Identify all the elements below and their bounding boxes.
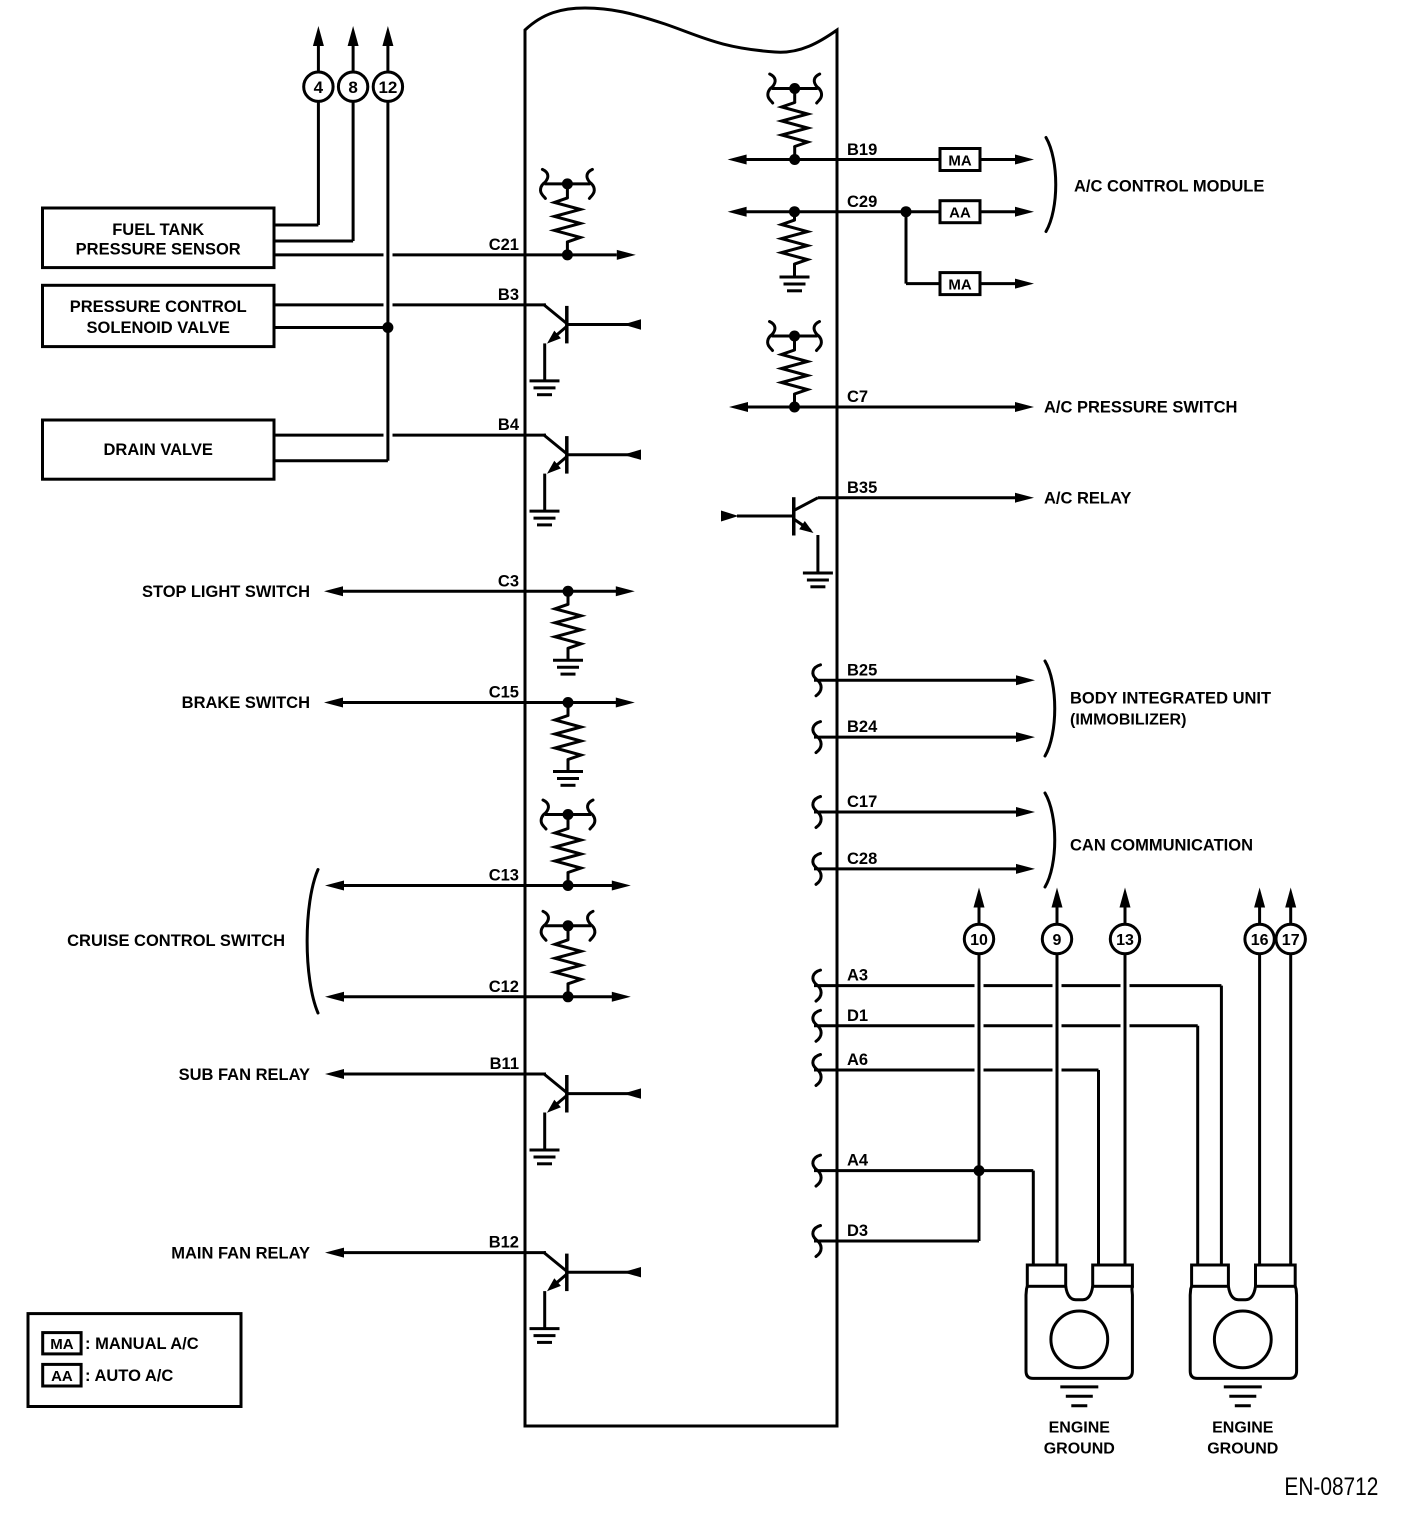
engine ground body 1 xyxy=(1026,1286,1132,1378)
legend box xyxy=(28,1314,241,1407)
wire fuel tank to connector 8 xyxy=(274,101,353,241)
svg-text:MAIN FAN RELAY: MAIN FAN RELAY xyxy=(171,1244,310,1262)
svg-text:C13: C13 xyxy=(489,867,519,885)
wire node 16 vertical xyxy=(1258,954,1261,1266)
transistor Q4 (B12 main fan relay driver) xyxy=(544,1253,641,1328)
svg-text:D3: D3 xyxy=(847,1222,868,1240)
break symbol C28 xyxy=(813,853,821,884)
svg-text:GROUND: GROUND xyxy=(1207,1441,1278,1458)
junction C29 branch xyxy=(901,206,912,217)
svg-text:SUB FAN RELAY: SUB FAN RELAY xyxy=(179,1066,310,1084)
ground (Q1 (B3 pressure control driver) emitter) xyxy=(530,381,560,395)
wire B19 to A/C control module xyxy=(980,155,1034,165)
wire pin C13 xyxy=(325,881,631,891)
svg-text:C3: C3 xyxy=(498,572,519,590)
junction C29 xyxy=(789,206,800,217)
junction C12 xyxy=(563,991,574,1002)
AA legend symbol xyxy=(43,1364,81,1386)
junction C7 xyxy=(789,402,800,413)
svg-text:A4: A4 xyxy=(847,1152,869,1170)
junction C13 xyxy=(563,880,574,891)
break symbol D3 xyxy=(813,1226,821,1257)
drain valve box xyxy=(43,420,275,479)
engine ground body 2 xyxy=(1190,1286,1296,1378)
svg-text:CAN COMMUNICATION: CAN COMMUNICATION xyxy=(1070,836,1253,854)
wire pin C21 xyxy=(274,250,636,260)
break symbol B25 xyxy=(813,665,821,696)
junction B19 xyxy=(789,154,800,165)
wire pin A4 xyxy=(814,1171,1033,1265)
ECM box xyxy=(525,8,837,1426)
wire node 10 vertical xyxy=(978,954,981,1242)
connector circle 4 xyxy=(304,26,333,101)
bracket cruise control switch xyxy=(307,870,318,1014)
transistor Q2 (B4 drain valve driver) xyxy=(544,435,641,510)
connector circle 17 xyxy=(1276,888,1305,954)
terminal 2 of engine ground 1 xyxy=(1093,1265,1133,1286)
AA box (C29 auto A/C) xyxy=(940,201,980,223)
svg-text:: MANUAL A/C: : MANUAL A/C xyxy=(85,1335,199,1353)
svg-text:EN-08712: EN-08712 xyxy=(1284,1473,1378,1501)
resistor C15 to ground xyxy=(555,703,581,771)
svg-text:: AUTO A/C: : AUTO A/C xyxy=(85,1367,173,1385)
break symbol A6 xyxy=(813,1055,821,1086)
wire fuel tank to connector 4 xyxy=(274,101,318,225)
label body integrated unit xyxy=(1070,690,1271,729)
ground (Q2 (B4 drain valve driver) emitter) xyxy=(530,511,560,525)
transistor Q5 (B35 A/C relay driver) xyxy=(721,497,818,571)
transistor Q3 (B11 sub fan relay driver) xyxy=(544,1074,641,1149)
svg-text:C29: C29 xyxy=(847,193,877,211)
bracket A/C control module xyxy=(1046,138,1056,232)
wire pin C7 xyxy=(729,402,1034,412)
ground (Q4 (B12 main fan relay driver) emitter) xyxy=(530,1329,560,1343)
wire pin B25 xyxy=(814,675,1035,685)
wire pin B4 xyxy=(274,434,545,437)
wire pin D1 xyxy=(814,1026,1198,1265)
wire C29 manual branch arrow xyxy=(980,279,1034,289)
svg-text:4: 4 xyxy=(314,78,324,97)
wire C29 branch to manual A/C xyxy=(906,212,940,284)
svg-text:SOLENOID VALVE: SOLENOID VALVE xyxy=(87,319,230,337)
svg-text:GROUND: GROUND xyxy=(1044,1441,1115,1458)
svg-text:C21: C21 xyxy=(489,236,519,254)
svg-text:CRUISE CONTROL SWITCH: CRUISE CONTROL SWITCH xyxy=(67,932,285,950)
transistor Q1 (B3 pressure control driver) xyxy=(544,305,641,380)
svg-text:C7: C7 xyxy=(847,388,868,406)
ground (C15 resistor) xyxy=(553,772,583,786)
svg-text:AA: AA xyxy=(949,205,971,222)
svg-text:B25: B25 xyxy=(847,661,877,679)
ground symbol (engine ground 2) xyxy=(1224,1387,1262,1406)
connector circle 16 xyxy=(1245,888,1274,954)
svg-text:13: 13 xyxy=(1116,932,1134,949)
svg-text:C15: C15 xyxy=(489,684,519,702)
svg-text:8: 8 xyxy=(348,78,357,97)
junction node 12 xyxy=(382,322,393,333)
ground symbol (engine ground 1) xyxy=(1060,1387,1098,1406)
svg-text:A/C RELAY: A/C RELAY xyxy=(1044,489,1131,507)
connector circle 8 xyxy=(338,26,367,101)
bracket body integrated unit xyxy=(1045,661,1055,756)
break symbol A4 xyxy=(813,1155,821,1186)
resistor pull-up C21 xyxy=(541,169,595,255)
svg-text:ENGINE: ENGINE xyxy=(1212,1420,1274,1437)
resistor pull-up B19 xyxy=(768,74,822,160)
svg-text:(IMMOBILIZER): (IMMOBILIZER) xyxy=(1070,712,1186,729)
svg-text:AA: AA xyxy=(51,1368,73,1385)
svg-text:B4: B4 xyxy=(498,416,520,434)
wire node 13 vertical xyxy=(1124,954,1127,1266)
wire pin B11 xyxy=(325,1069,545,1079)
svg-text:A/C CONTROL MODULE: A/C CONTROL MODULE xyxy=(1074,178,1264,196)
svg-text:BRAKE SWITCH: BRAKE SWITCH xyxy=(182,694,310,712)
ground (Q3 (B11 sub fan relay driver) emitter) xyxy=(530,1150,560,1164)
resistor C3 to ground xyxy=(555,591,581,659)
fuel tank pressure sensor box xyxy=(43,208,275,268)
resistor pull-up C7 xyxy=(768,322,822,408)
MA box (C29 manual A/C) xyxy=(940,273,980,295)
ground (C29 resistor) xyxy=(780,277,810,291)
wire pin B19 xyxy=(728,155,940,165)
wire pin C15 xyxy=(324,698,635,708)
MA box (B19 manual A/C) xyxy=(940,149,980,171)
wire drain valve lower to node 12 xyxy=(274,459,388,462)
svg-text:MA: MA xyxy=(948,153,971,170)
svg-text:B11: B11 xyxy=(490,1055,519,1073)
ground (C3 resistor) xyxy=(553,660,583,674)
label engine ground 1 xyxy=(1044,1420,1115,1458)
junction C3 xyxy=(563,586,574,597)
resistor pull-up C12 xyxy=(541,911,595,997)
break symbol D1 xyxy=(813,1010,821,1041)
connector circle 9 xyxy=(1042,888,1071,954)
svg-text:17: 17 xyxy=(1282,932,1300,949)
wire pin B12 xyxy=(325,1248,545,1258)
svg-text:FUEL TANK: FUEL TANK xyxy=(112,221,204,239)
ground (B35 emitter) xyxy=(803,573,833,587)
wire node 12 vertical xyxy=(386,101,389,461)
label engine ground 2 xyxy=(1207,1420,1278,1458)
svg-text:A6: A6 xyxy=(847,1051,868,1069)
svg-text:B19: B19 xyxy=(847,141,877,159)
wire node 17 vertical xyxy=(1289,954,1292,1266)
svg-text:9: 9 xyxy=(1053,932,1062,949)
svg-text:PRESSURE SENSOR: PRESSURE SENSOR xyxy=(76,240,241,258)
wire pin C3 xyxy=(324,586,635,596)
svg-text:BODY INTEGRATED UNIT: BODY INTEGRATED UNIT xyxy=(1070,690,1271,708)
break symbol B24 xyxy=(813,722,821,753)
wire pin C28 xyxy=(814,864,1035,874)
svg-text:C17: C17 xyxy=(847,793,877,811)
svg-text:D1: D1 xyxy=(847,1007,868,1025)
break symbol A3 xyxy=(813,970,821,1001)
wire pin A6 xyxy=(814,1070,1099,1265)
junction A4 node 10 xyxy=(974,1165,985,1176)
svg-text:STOP LIGHT SWITCH: STOP LIGHT SWITCH xyxy=(142,583,310,601)
wire pin B35 xyxy=(818,493,1034,503)
svg-text:C12: C12 xyxy=(489,978,519,996)
svg-text:C28: C28 xyxy=(847,850,877,868)
svg-text:12: 12 xyxy=(378,78,397,97)
wire pin A3 xyxy=(814,986,1221,1265)
terminal 1 of engine ground 1 xyxy=(1027,1265,1065,1286)
svg-text:16: 16 xyxy=(1251,932,1269,949)
junction C15 xyxy=(563,697,574,708)
resistor pull-up C13 xyxy=(541,800,595,886)
terminal 1 of engine ground 2 xyxy=(1192,1265,1229,1286)
wire pin C12 xyxy=(325,992,631,1002)
MA legend symbol xyxy=(43,1333,81,1354)
terminal 2 of engine ground 2 xyxy=(1256,1265,1296,1286)
svg-text:DRAIN VALVE: DRAIN VALVE xyxy=(103,441,212,459)
wire node 9 vertical xyxy=(1056,954,1059,1266)
svg-text:MA: MA xyxy=(50,1336,73,1353)
wire pressure control lower to node 12 xyxy=(274,326,388,329)
wire pin C29 xyxy=(728,207,940,217)
wire pin B3 xyxy=(274,303,545,306)
svg-text:ENGINE: ENGINE xyxy=(1049,1420,1111,1437)
pressure control solenoid valve box xyxy=(43,285,275,346)
wire pin B24 xyxy=(814,732,1035,742)
break symbol C17 xyxy=(813,797,821,828)
connector circle 12 xyxy=(373,26,402,101)
svg-text:A/C PRESSURE SWITCH: A/C PRESSURE SWITCH xyxy=(1044,399,1237,417)
connector circle 10 xyxy=(964,888,993,954)
svg-text:B24: B24 xyxy=(847,718,878,736)
wire C29 to A/C control module (auto) xyxy=(980,207,1034,217)
bracket CAN communication xyxy=(1045,793,1055,887)
connector circle 13 xyxy=(1110,888,1139,954)
wire pin D3 xyxy=(814,1240,979,1243)
svg-text:B35: B35 xyxy=(847,479,877,497)
svg-text:10: 10 xyxy=(970,932,988,949)
wire pin C17 xyxy=(814,807,1035,817)
svg-text:MA: MA xyxy=(948,277,971,294)
svg-text:PRESSURE CONTROL: PRESSURE CONTROL xyxy=(70,298,247,316)
junction C21 xyxy=(562,249,573,260)
svg-text:B3: B3 xyxy=(498,286,519,304)
resistor C29 to ground xyxy=(782,212,808,276)
svg-text:A3: A3 xyxy=(847,967,868,985)
svg-text:B12: B12 xyxy=(489,1234,519,1252)
